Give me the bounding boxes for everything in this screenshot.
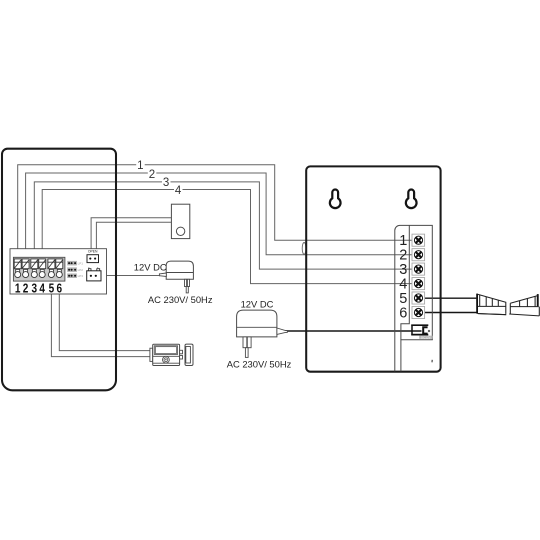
wire OPEN A (open connector to doorbell button upper) <box>91 218 171 255</box>
PSU2 DC plug tip <box>277 328 287 334</box>
electric lock strike plate <box>185 344 193 365</box>
svg-text:1: 1 <box>137 160 143 172</box>
svg-text:6: 6 <box>399 306 407 322</box>
doorbell button <box>171 204 189 238</box>
label wire 1 <box>136 159 145 172</box>
svg-text:4: 4 <box>39 281 45 296</box>
svg-text:12V DC: 12V DC <box>134 262 167 273</box>
door station outline <box>306 166 440 371</box>
wire lock 5 (monitor terminal 5 to electric lock) <box>51 277 150 357</box>
PSU2 mains prongs <box>243 337 251 358</box>
jumper LP3 <box>67 274 83 279</box>
monitor PCB board <box>10 249 107 294</box>
door station terminal 2 <box>412 249 425 261</box>
terminal 3 <box>31 259 38 278</box>
moulding tick mark <box>431 360 433 363</box>
monitor terminal numbers 1-6 <box>15 281 63 296</box>
electric lock screw <box>163 356 170 363</box>
label wire 4 <box>174 184 183 197</box>
label wire 2 <box>148 168 157 181</box>
svg-text:4: 4 <box>175 185 182 197</box>
svg-text:LP1: LP1 <box>78 261 84 265</box>
PSU1 mains prongs <box>185 279 190 293</box>
svg-text:12V DC: 12V DC <box>241 299 274 310</box>
svg-text:3: 3 <box>163 177 169 189</box>
door station terminal 3 <box>412 263 425 275</box>
keyhole mounting slot left <box>330 189 341 208</box>
terminal 5 <box>48 259 55 278</box>
door station terminal 5 <box>412 292 425 304</box>
wire 3 (monitor terminal 3 to door station terminal 3) <box>34 182 412 269</box>
svg-text:6: 6 <box>57 281 63 296</box>
jumper LP1 <box>67 261 83 266</box>
label wire 3 <box>162 176 171 189</box>
door station terminal 6 <box>412 306 425 318</box>
indoor monitor outline <box>2 149 116 391</box>
power connector pin labels <box>88 266 99 269</box>
monitor power connector <box>87 269 101 281</box>
keyhole mounting slot right <box>406 189 417 208</box>
svg-text:DC12V: DC12V <box>421 335 431 339</box>
PSU1 DC plug tip <box>159 273 166 277</box>
DC12V label plate <box>419 335 432 339</box>
svg-text:AC 230V/ 50Hz: AC 230V/ 50Hz <box>148 294 213 305</box>
door station terminal 1 <box>412 234 425 246</box>
wire 12V DC adapter 2 to door station DC jack <box>287 330 421 332</box>
power adapter PSU2 body <box>237 310 277 337</box>
monitor terminal block TB1 <box>13 257 65 281</box>
wire 12V DC adapter 1 to monitor power connector <box>101 275 159 277</box>
terminal 4 <box>39 259 46 278</box>
svg-text:LP2: LP2 <box>78 268 84 272</box>
terminal 1 (screw + wire hole) <box>14 259 21 278</box>
terminal 2 <box>22 259 29 278</box>
lock cable connector plug right <box>509 294 539 316</box>
svg-text:2: 2 <box>23 281 29 296</box>
power adapter PSU1 body <box>166 261 193 279</box>
terminal 6 <box>56 259 63 278</box>
electric lock latch tabs <box>180 350 183 359</box>
wire door station terminal 6 to lock connector <box>424 312 477 314</box>
electric lock body <box>153 344 180 365</box>
electric lock wire connector block <box>150 348 153 361</box>
DC power jack J1 <box>411 325 430 336</box>
door station terminal 4 <box>412 278 425 290</box>
lock cable connector plug left <box>476 294 506 315</box>
wire OPEN B (open connector to doorbell button lower) <box>96 222 171 254</box>
wire 4 (monitor terminal 4 to door station terminal 4) <box>42 190 412 284</box>
door station terminal panel <box>395 225 433 371</box>
wire grommet on door station edge <box>302 243 306 255</box>
wire door station terminal 5 to lock connector <box>424 297 476 299</box>
wire 1 (monitor terminal 1 to door station terminal 1) <box>18 165 413 259</box>
OPEN connector <box>87 255 99 263</box>
jumper LP2 <box>67 267 83 272</box>
svg-text:2: 2 <box>149 169 155 181</box>
door station terminal labels 1-6 <box>399 233 407 321</box>
door station terminal panel divider <box>401 225 409 339</box>
svg-text:5: 5 <box>49 281 55 296</box>
svg-text:AC 230V/ 50Hz: AC 230V/ 50Hz <box>227 359 292 370</box>
svg-text:LP3: LP3 <box>78 274 84 278</box>
wire 2 (monitor terminal 2 to door station terminal 2) <box>26 173 413 259</box>
svg-text:3: 3 <box>32 281 38 296</box>
svg-text:1: 1 <box>15 281 21 296</box>
svg-text:OPEN: OPEN <box>88 250 98 254</box>
wire lock 6 (monitor terminal 6 to electric lock) <box>59 277 150 351</box>
